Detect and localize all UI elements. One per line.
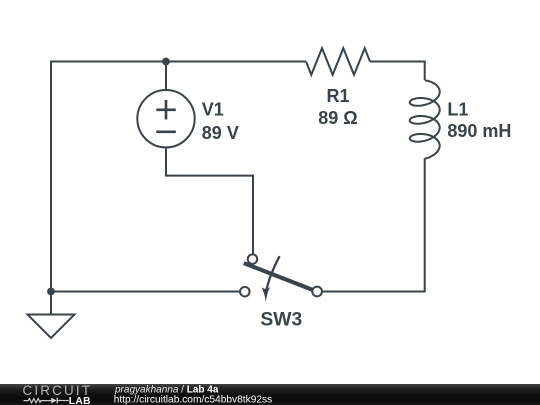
- switch SW3 right throw terminal: [312, 287, 322, 297]
- logo resistor squiggle: [23, 399, 51, 403]
- switch SW3 blade: [244, 263, 313, 290]
- wire: bottom-left rail to switch left throw: [51, 291, 240, 293]
- V1 plus sign: [156, 100, 176, 132]
- CircuitLab logo text CIRCUIT: [23, 383, 273, 405]
- junction node at ground rail: [47, 288, 55, 296]
- wire: resistor to top-right corner down to inductor top: [370, 62, 425, 81]
- switch SW3 arrowhead: [262, 287, 271, 302]
- V1 minus sign: [156, 131, 176, 134]
- wire: V1 top lead: [165, 62, 167, 91]
- voltage source V1: [137, 90, 194, 147]
- switch SW3 terminals: [240, 254, 322, 296]
- wire: ground stem: [50, 292, 52, 315]
- ground: [28, 315, 75, 339]
- footer bar: [0, 384, 540, 405]
- wire: left rail and top rail: [51, 62, 306, 292]
- switch SW3 actuation arrow: [266, 256, 279, 291]
- inductor L1 coil: [410, 80, 440, 159]
- resistor R1: [306, 48, 370, 75]
- wire: V1 bottom lead to switch common: [166, 147, 253, 254]
- svg-text:LAB: LAB: [69, 396, 91, 405]
- junction node at V1 top: [162, 58, 170, 66]
- logo diode symbol: [51, 398, 57, 404]
- wire: inductor bottom, right rail, bottom-right to switch: [322, 158, 425, 291]
- switch SW3 left throw terminal: [240, 287, 250, 297]
- switch SW3 common terminal (top): [248, 254, 258, 264]
- svg-text:http://circuitlab.com/c54bbv8t: http://circuitlab.com/c54bbv8tk92ss: [114, 395, 273, 405]
